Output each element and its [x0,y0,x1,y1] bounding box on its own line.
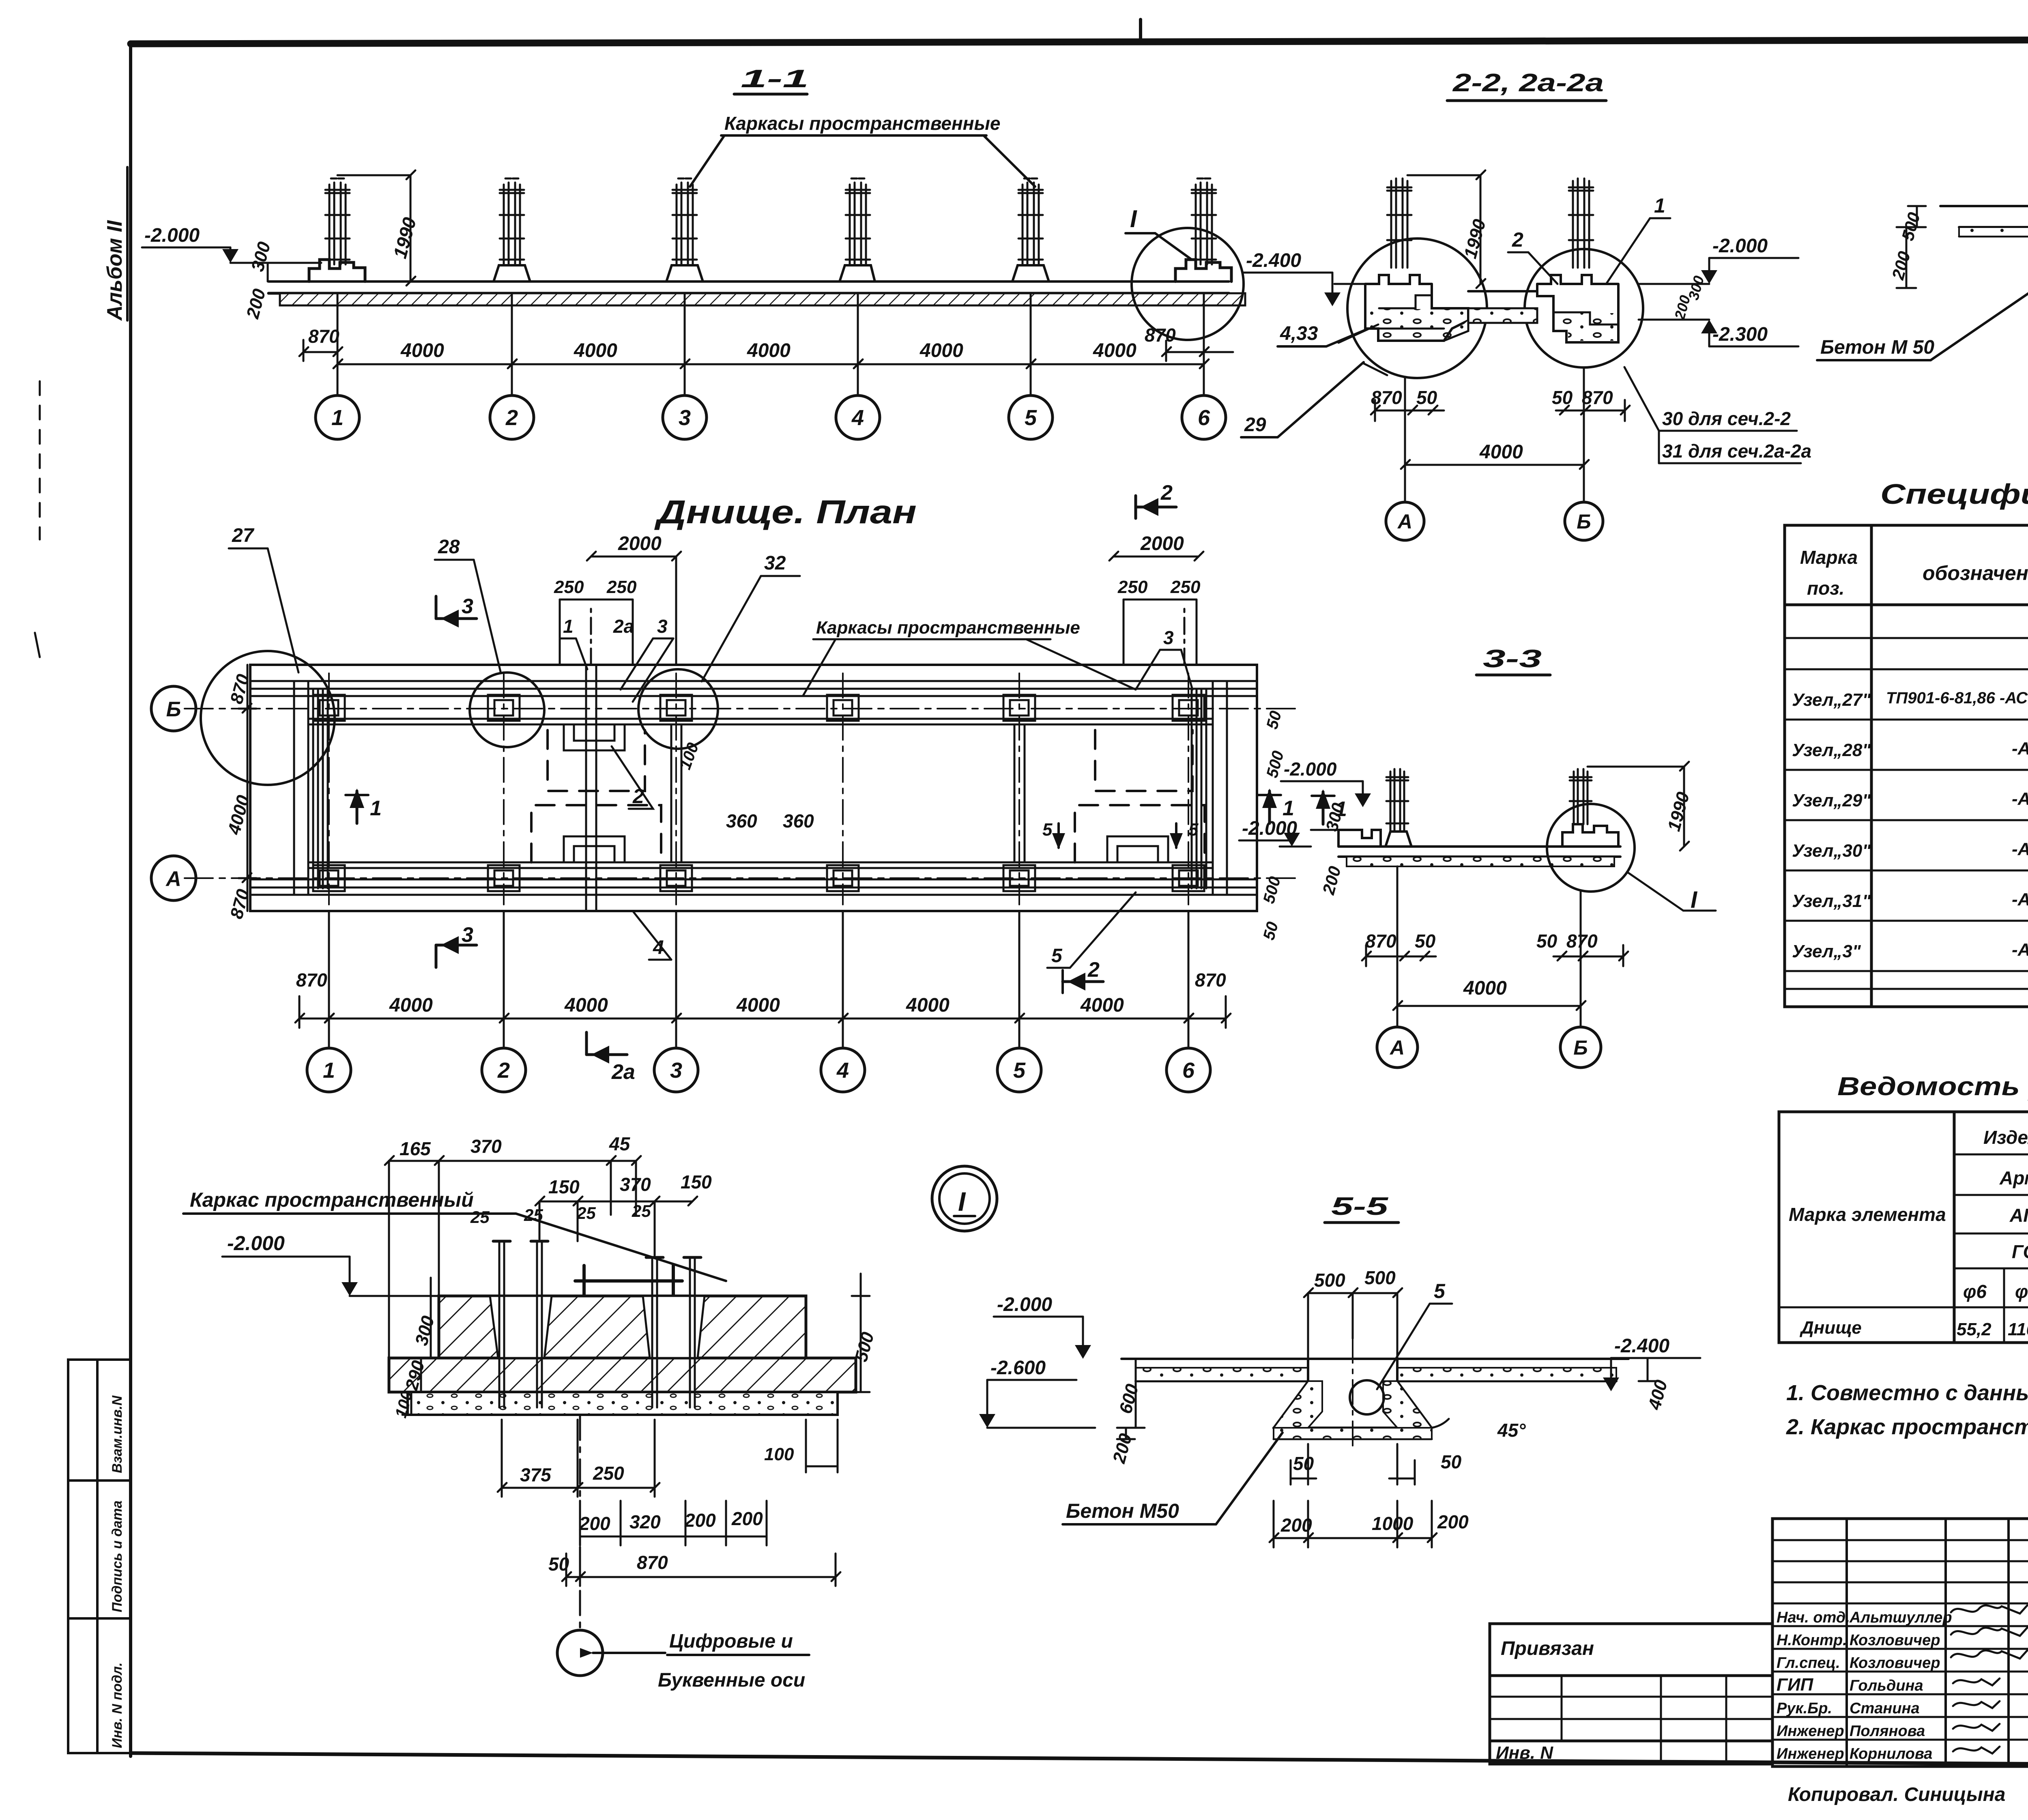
axis circle B [1565,502,1603,540]
dim 4000 3-3 [1393,978,1585,1010]
dims 150 370 150 [535,1171,712,1255]
section mark 3 bottom [436,923,477,967]
level -2.000 left 3-3 [1239,818,1311,847]
dim 870 right 1-1 [1145,324,1233,361]
svg-text:3: 3 [1163,627,1174,648]
axis verticals 3-3 [1397,866,1581,1027]
svg-text:370: 370 [470,1136,502,1157]
section mark 2 bottom [1063,958,1103,993]
svg-text:50: 50 [1415,930,1436,952]
axis circle B left [151,686,196,731]
svg-text:2000: 2000 [1140,533,1184,554]
right edge small dims 50 500 [1260,709,1287,942]
svg-text:3: 3 [679,406,691,430]
signature names [1777,1609,1952,1762]
svg-text:50: 50 [1416,387,1437,408]
labels 1 2a 3 top [560,616,673,702]
column pedestals on slab [494,265,1049,281]
recess at axis 2a near B [564,724,625,750]
dim 1990 right 3-3 [1588,762,1693,851]
level -2.000 detail [222,1232,439,1296]
dims 360 360 middle [726,810,814,832]
axis B centerline [185,708,1298,709]
svg-text:200: 200 [731,1508,763,1529]
svg-text:3: 3 [657,616,668,637]
leader 4,33 to node A [1338,324,1378,343]
svg-text:6: 6 [1182,1058,1195,1083]
svg-text:ТП901-6-81,86 -АС10, Ал. II: ТП901-6-81,86 -АС10, Ал. III [1886,689,2028,707]
axis circle A left [151,856,196,900]
svg-text:Узел„31": Узел„31" [1792,891,1871,911]
left stamp column [68,1360,131,1753]
spec row uzel 31 [1792,887,2028,913]
svg-text:500: 500 [1364,1267,1396,1288]
svg-text:-2.400: -2.400 [1246,250,1301,271]
svg-text:200: 200 [1671,293,1693,322]
section mark arrow 1 (3-3 left) [1312,789,1347,824]
svg-text:600: 600 [1115,1382,1142,1416]
dim 100 right bottom [764,1420,838,1472]
svg-text:Цифровые и: Цифровые и [669,1631,793,1652]
slab top band 4-4 [1940,206,2028,236]
svg-text:Гл.спец.: Гл.спец. [1777,1655,1840,1672]
level -2.600 5-5 [979,1357,1095,1428]
plan outer rectangle [250,665,1257,911]
dims 870 50 below node A [1371,387,1444,421]
main dim line 1-1 with 4000 labels [333,340,1209,368]
svg-text:500: 500 [1260,875,1284,905]
plan axis circles 1..6 [307,1048,1210,1092]
detail circle 3-3 [1547,804,1635,892]
svg-text:АI: АI [2009,1205,2028,1226]
spec row uzel 3 [1792,937,2028,963]
label karkasy prostranstvennye [724,113,1000,134]
spec row uzel 27 [1792,686,2028,712]
section mark 3 top [436,595,477,627]
axis circle B 3-3 [1560,1027,1601,1068]
svg-text:Полянова: Полянова [1850,1723,1925,1740]
svg-text:Днище. План: Днище. План [654,494,917,531]
axis circle A [1386,502,1424,540]
svg-text:-2.000: -2.000 [1712,235,1768,257]
svg-text:2-2, 2а-2а: 2-2, 2а-2а [1452,69,1604,97]
callout circle node 3B [638,669,718,749]
svg-text:Корнилова: Корнилова [1850,1745,1932,1762]
dim 300 rotated [247,239,274,281]
svg-text:360: 360 [783,810,814,832]
spec header texts [1800,546,2028,599]
joint lines at axis 5 [1014,724,1025,862]
svg-text:4000: 4000 [906,995,950,1016]
svg-text:2а: 2а [613,616,634,637]
svg-text:110,4: 110,4 [2008,1319,2028,1339]
karkas label [190,1188,474,1211]
svg-text:375: 375 [520,1464,552,1485]
section 1-1 title underline [734,93,807,96]
album label [103,167,127,321]
svg-text:3: 3 [462,923,473,947]
svg-text:2а: 2а [611,1060,635,1084]
svg-text:I: I [1130,205,1137,232]
svg-text:Альбом II: Альбом II [103,220,127,321]
svg-text:1-1: 1-1 [741,65,809,93]
svg-text:1990: 1990 [1664,790,1693,834]
dims 50 870 below node B [1552,387,1630,421]
svg-text:ГОСТ 5781-82: ГОСТ 5781-82 [2012,1241,2028,1262]
svg-text:I: I [958,1186,966,1216]
left end hatch band [294,681,328,895]
level -2.300 right of 2-2 [1639,320,1798,346]
label underline and leaders [690,135,1035,187]
label 5 leader 5-5 [1377,1280,1452,1389]
slab 1-1 [230,263,1245,305]
right side level -2.000 of plan [1281,759,1371,807]
svg-text:1: 1 [563,616,574,637]
bottom prep strip dotted [408,1392,838,1415]
column A rebar 3-3 [1386,769,1408,832]
svg-text:870: 870 [1195,969,1226,991]
svg-text:30 для сеч.2-2: 30 для сеч.2-2 [1662,408,1791,429]
svg-text:Взам.инв.N: Взам.инв.N [110,1395,125,1473]
callout circle big left [201,651,335,785]
svg-text:4000: 4000 [1479,441,1523,463]
svg-text:-АС11,: -АС11, [2012,890,2028,909]
dashed box near axis 2a bottom [531,805,661,862]
label Beton M50 4-4 [1817,284,2028,360]
svg-text:2: 2 [1512,228,1523,251]
svg-text:Козловичер: Козловичер [1850,1655,1940,1672]
axis A centerline [185,877,1298,879]
svg-text:250: 250 [554,577,584,597]
slab 3-3 [1311,830,1620,866]
plan title [654,494,917,531]
svg-text:2: 2 [1087,958,1100,982]
svg-text:320: 320 [629,1511,661,1532]
svg-text:поз.: поз. [1807,578,1844,599]
small dims 300 200 right [1671,274,1707,322]
dim 400 right 5-5 [1639,1359,1671,1412]
svg-text:-2.000: -2.000 [1284,759,1337,780]
detail marker I double circle [932,1166,997,1231]
svg-text:4000: 4000 [736,995,780,1016]
svg-text:ГИП: ГИП [1777,1675,1814,1695]
axis verticals below plan [329,911,1188,1048]
end unit profile at axis 1 [309,260,365,281]
dims 600 200 left 5-5 [1109,1359,1145,1466]
signature table [1772,1519,2028,1766]
dims 50 870 bottom [548,1552,840,1586]
svg-text:50: 50 [1552,387,1573,408]
label karkasy plan [803,618,1136,696]
svg-text:-АС10,: -АС10, [2012,739,2028,759]
svg-text:1: 1 [370,797,382,820]
wall band along axis A [250,862,1257,887]
svg-text:Альтшуллер: Альтшуллер [1849,1609,1952,1626]
column pads row A [313,865,1204,891]
upper block hatched [439,1296,806,1358]
svg-text:300: 300 [411,1313,438,1347]
svg-text:Каркас пространственный: Каркас пространственный [190,1188,474,1211]
svg-text:28: 28 [438,536,460,558]
top dims 250 250 right [1117,577,1201,665]
svg-text:32: 32 [764,552,786,574]
section mark up-arrow 1 right [1258,789,1294,823]
svg-text:4: 4 [836,1058,849,1083]
svg-text:100: 100 [764,1444,794,1464]
labels 4 and 5 bottom [633,892,1136,968]
svg-text:Инженер: Инженер [1777,1723,1844,1740]
svg-text:Узел„28": Узел„28" [1792,740,1871,760]
uzel A block profile [1365,275,1468,341]
detail leader I 3-3 [1627,872,1716,913]
svg-text:Нач. отд.: Нач. отд. [1777,1609,1850,1626]
left vertical dims 870 4000 870 [224,665,256,921]
signature squiggles [1951,1605,2027,1753]
recess near axis 5-6 bottom [1107,836,1168,862]
dims 50 870 below axis B 3-3 [1536,930,1628,966]
svg-text:370: 370 [620,1174,651,1195]
column A rebar [1387,178,1411,268]
svg-text:4000: 4000 [747,340,791,361]
svg-text:-2.300: -2.300 [1712,324,1768,345]
privyazan box [1490,1624,1772,1764]
svg-text:200: 200 [1888,249,1914,282]
svg-text:3: 3 [462,595,473,618]
svg-text:2000: 2000 [618,533,662,554]
svg-text:4000: 4000 [389,995,433,1016]
dashed box near axis 5-6 top [1095,730,1192,791]
svg-text:Бетон М50: Бетон М50 [1066,1500,1179,1522]
section 3-3 underline [1476,674,1550,677]
pedestal at axis A 3-3 [1386,832,1411,847]
svg-text:1000: 1000 [1372,1513,1414,1534]
svg-text:Козловичер: Козловичер [1850,1632,1940,1649]
svg-text:165: 165 [400,1138,431,1159]
dims 300 200 left 3-3 [1319,801,1348,897]
svg-text:3-3: 3-3 [1483,645,1542,673]
45 deg note 5-5 [1432,1419,1526,1441]
svg-text:Бетон М 50: Бетон М 50 [1820,337,1934,358]
label beton M50 5-5 [1063,1433,1283,1524]
svg-text:5-5: 5-5 [1331,1193,1389,1220]
slab between nodes 2-2 [1468,291,1537,323]
svg-text:5: 5 [1025,406,1037,430]
svg-text:Б: Б [1577,510,1591,533]
right vertical dim 500 [851,1274,878,1392]
svg-text:29: 29 [1244,414,1266,436]
svg-text:4000: 4000 [1463,978,1507,999]
fold mark dashes [35,19,1141,657]
svg-text:150: 150 [548,1176,580,1197]
label 1 with leader [1606,194,1670,284]
svg-text:4,33: 4,33 [1280,323,1318,344]
axis circle A 3-3 [1377,1027,1418,1068]
svg-text:-2.400: -2.400 [1614,1335,1669,1357]
svg-text:200: 200 [684,1510,716,1531]
middle slab hatched [389,1358,856,1392]
bottom dim 870 right [1184,969,1231,1028]
label 2 mid with leader [612,746,653,809]
svg-text:Узел„3": Узел„3" [1792,941,1861,961]
svg-text:Марка элемента: Марка элемента [1789,1204,1946,1225]
svg-text:Каркасы пространственные: Каркасы пространственные [724,113,1000,134]
svg-text:4000: 4000 [564,995,608,1016]
svg-text:Днище: Днище [1799,1318,1862,1338]
svg-text:870: 870 [637,1552,668,1573]
dims 50 50 5-5 [1291,1444,1462,1485]
wall band along axis B [250,689,1257,724]
svg-text:А: А [1389,1036,1405,1059]
svg-text:150: 150 [681,1171,712,1193]
bottom dim 870 left [295,969,334,1028]
joint lines at axis 2a [586,665,596,911]
node circle B (uzel 30) [1525,249,1643,367]
svg-text:Привязан: Привязан [1501,1638,1594,1659]
detail label I [1126,205,1192,260]
svg-text:-АС11,: -АС11, [2012,839,2028,859]
top dims 2000 right [1109,533,1203,561]
svg-text:1: 1 [1654,194,1665,217]
svg-text:φ8: φ8 [2015,1281,2028,1302]
svg-text:45: 45 [609,1133,631,1154]
end unit profile at axis 6 [1175,260,1231,281]
svg-text:-2.000: -2.000 [997,1294,1052,1315]
svg-text:5: 5 [1188,820,1199,840]
dim 200 rotated [243,286,270,321]
column B rebar [1569,178,1593,268]
svg-text:1. Совместно с данным листо: 1. Совместно с данным листом смотрите ли… [1786,1381,2028,1405]
svg-text:25: 25 [632,1201,651,1220]
svg-text:400: 400 [1644,1377,1671,1412]
svg-text:Б: Б [166,698,181,721]
dim 100 rotated near recess [676,740,702,772]
spec table title [1880,478,2028,510]
svg-text:870: 870 [1566,930,1598,952]
rebar bars vertical [493,1241,701,1407]
bottom dims 375 250 [498,1420,660,1497]
svg-text:Ведомость расхода стали на: Ведомость расхода стали на элемент, кг [1837,1072,2028,1101]
svg-text:25: 25 [576,1203,596,1223]
section 5-5 title [1331,1193,1389,1220]
svg-text:360: 360 [726,810,757,832]
svg-text:250: 250 [593,1463,624,1484]
svg-text:Инв. N: Инв. N [1496,1743,1553,1763]
svg-text:5: 5 [1434,1280,1446,1302]
axis centerlines vertical in plan [329,673,1188,905]
dims 500 200 left 4-4 [1888,206,1926,288]
dim 1990 vertical 2-2 [1407,170,1490,288]
end unit right 3-3 (in detail circle) [1562,824,1618,847]
slab 5-5 [1121,1359,1628,1381]
steel table texts [1789,1125,2028,1302]
section marks 5 arrows in plan [1042,820,1199,849]
svg-text:Изделия арматурные: Изделия арматурные [1983,1127,2028,1148]
dashed box near axis 2a top [548,730,645,791]
section mark 2a bottom center [586,1032,635,1084]
svg-text:2. Каркас пространственный: 2. Каркас пространственный см. Ал. III, … [1786,1415,2028,1439]
label 27 with leader [229,525,299,673]
label 2 with leader [1508,228,1558,284]
uzel A block infill [1367,309,1467,339]
svg-text:27: 27 [232,525,255,546]
spec table grid [1785,525,2028,1007]
svg-text:250: 250 [606,577,637,597]
svg-text:55,2: 55,2 [1957,1319,1991,1339]
recess at axis 2a near A [564,836,625,862]
callout circle node 2B [470,673,544,747]
svg-text:2: 2 [1160,481,1173,505]
svg-text:3: 3 [670,1058,682,1083]
svg-text:4000: 4000 [400,340,444,361]
svg-text:5: 5 [1013,1058,1026,1083]
svg-text:Станина: Станина [1850,1700,1920,1717]
dim 4000 between A B [1401,441,1589,469]
svg-text:45°: 45° [1497,1420,1526,1441]
svg-text:Арматура калсса: Арматура калсса [1999,1167,2028,1188]
dashed box near axis 5-6 bottom [1075,805,1205,862]
label 28 with leader [435,536,501,673]
svg-text:50: 50 [1441,1451,1462,1472]
section 2-2 title [1452,69,1604,97]
steel table grid [1779,1112,2028,1343]
svg-text:870: 870 [1145,324,1176,346]
svg-text:870: 870 [1365,930,1396,952]
pit 5-5 [1274,1359,1432,1439]
top dims 250 250 left [554,577,637,665]
svg-text:200: 200 [1109,1431,1136,1465]
axis verticals 2-2 [1405,367,1584,502]
svg-text:обозначение: обозначение [1923,562,2028,584]
svg-text:870: 870 [226,887,253,921]
svg-text:500: 500 [1314,1270,1345,1291]
svg-text:870: 870 [308,326,339,347]
svg-text:250: 250 [1117,577,1148,597]
svg-text:200: 200 [1437,1511,1469,1532]
section 3-3 title [1483,645,1542,673]
section 2-2 title underline [1447,99,1606,102]
columns rebar 1-1 [325,178,1216,264]
bottom annotations [1788,1781,2028,1807]
label 32 with leader [702,552,800,681]
svg-text:2: 2 [505,406,518,430]
label 29 [1241,362,1364,437]
tsifrovye i bukvennye osi labels [658,1631,805,1691]
level -2.400 5-5 [1603,1335,1700,1391]
axis line and circle detail [557,1416,665,1676]
level -2.000 right of 2-2 [1639,235,1798,284]
svg-text:Рук.Бр.: Рук.Бр. [1777,1700,1832,1717]
svg-text:Узел„29": Узел„29" [1792,791,1871,810]
svg-text:6: 6 [1198,406,1210,430]
svg-text:50: 50 [1536,930,1558,952]
svg-text:1: 1 [1283,797,1294,820]
underline tsifrovye [667,1654,809,1656]
svg-text:Марка: Марка [1800,547,1858,568]
section 1-1 title [741,65,809,93]
svg-text:Копировал. Синицына: Копировал. Синицына [1788,1784,2005,1805]
end unit left 3-3 [1338,830,1381,847]
svg-text:А: А [165,867,181,891]
column B rebar 3-3 [1570,769,1592,824]
svg-text:-АС10,: -АС10, [2012,940,2028,960]
svg-text:Инженер: Инженер [1777,1745,1844,1762]
right end hatch band [1192,681,1227,895]
svg-text:-АС11,: -АС11, [2012,789,2028,809]
top dims 2000 left [587,533,681,665]
axis circles 1..6 [316,395,1226,439]
uzel B block infill [1555,313,1617,341]
svg-text:4000: 4000 [1093,340,1136,361]
